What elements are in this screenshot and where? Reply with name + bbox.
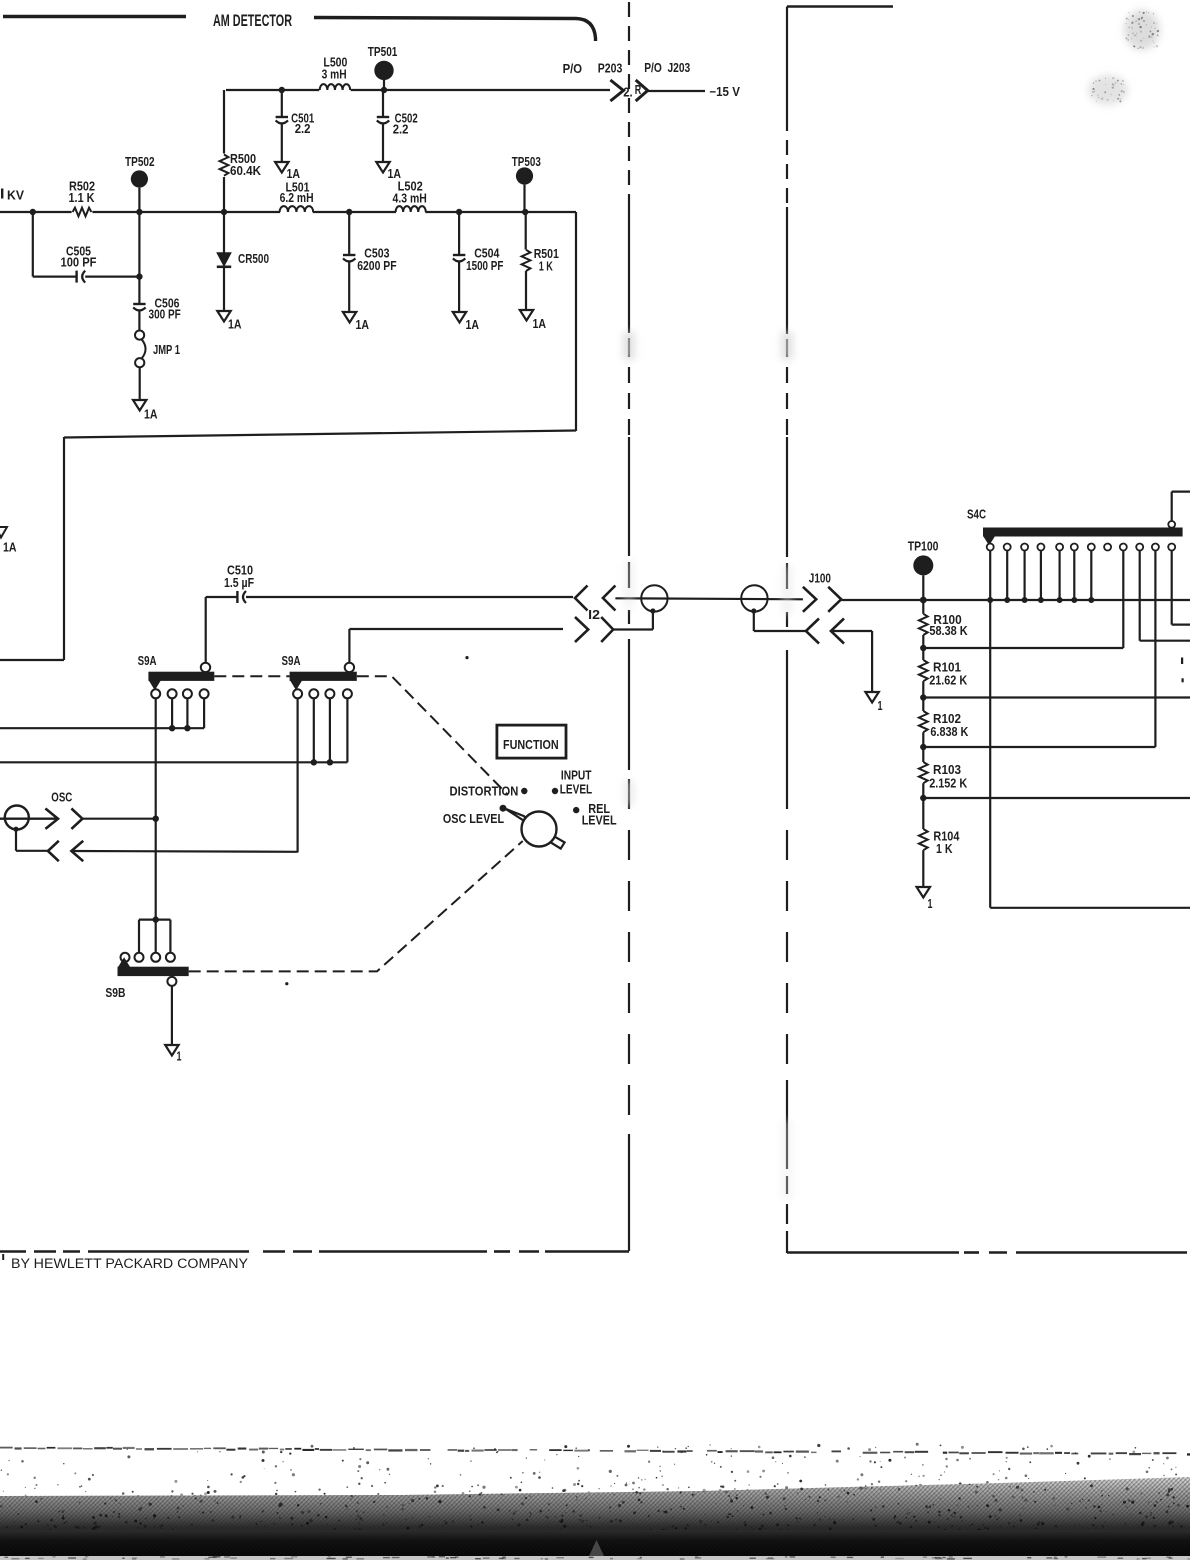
svg-text:P203: P203 (598, 62, 623, 76)
svg-text:AM DETECTOR: AM DETECTOR (213, 12, 292, 30)
svg-text:JMP 1: JMP 1 (153, 343, 180, 357)
svg-text:60.4K: 60.4K (230, 164, 261, 178)
svg-text:I2: I2 (588, 608, 600, 622)
svg-text:1.5 µF: 1.5 µF (224, 576, 254, 590)
svg-text:300 PF: 300 PF (149, 308, 182, 322)
svg-text:6200 PF: 6200 PF (357, 259, 397, 273)
svg-text:4.3 mH: 4.3 mH (393, 192, 427, 206)
svg-text:1: 1 (177, 1050, 182, 1064)
svg-text:S9B: S9B (105, 986, 125, 1000)
svg-text:2.: 2. (623, 86, 633, 100)
svg-text:21.62 K: 21.62 K (929, 674, 967, 688)
svg-text:R101: R101 (933, 661, 961, 675)
svg-text:1A: 1A (3, 541, 17, 555)
svg-text:DISTORTION: DISTORTION (450, 785, 519, 799)
svg-text:1500 PF: 1500 PF (466, 259, 504, 273)
svg-text:R102: R102 (933, 712, 961, 726)
svg-text:R103: R103 (933, 763, 961, 777)
svg-text:P/O J203: P/O J203 (644, 61, 690, 75)
svg-text:P/O: P/O (563, 62, 583, 76)
svg-text:S4C: S4C (967, 508, 986, 522)
svg-text:TP100: TP100 (908, 540, 939, 554)
svg-text:1 K: 1 K (539, 260, 553, 274)
svg-text:1A: 1A (356, 318, 370, 332)
svg-text:TP503: TP503 (512, 155, 541, 169)
svg-text:1A: 1A (287, 167, 301, 181)
svg-text:6.2 mH: 6.2 mH (280, 191, 314, 205)
svg-text:6.838 K: 6.838 K (930, 725, 968, 739)
svg-text:100 PF: 100 PF (61, 256, 97, 270)
svg-text:FUNCTION: FUNCTION (503, 737, 559, 752)
svg-text:INPUT: INPUT (561, 769, 592, 783)
svg-text:BY HEWLETT PACKARD COMPANY: BY HEWLETT PACKARD COMPANY (11, 1256, 248, 1271)
svg-text:1A: 1A (466, 318, 480, 332)
svg-text:OSC LEVEL: OSC LEVEL (443, 812, 505, 826)
svg-text:CR500: CR500 (238, 252, 269, 266)
svg-text:3 mH: 3 mH (322, 68, 347, 82)
svg-text:LEVEL: LEVEL (582, 814, 617, 828)
svg-text:J100: J100 (809, 572, 831, 586)
svg-text:1A: 1A (144, 408, 158, 422)
svg-text:2.2: 2.2 (393, 123, 409, 137)
svg-text:−15 V: −15 V (709, 85, 740, 99)
svg-text:1: 1 (878, 699, 883, 713)
svg-text:1A: 1A (228, 318, 242, 332)
svg-text:1 K: 1 K (936, 842, 953, 856)
svg-text:S9A: S9A (138, 654, 157, 668)
svg-text:58.38 K: 58.38 K (929, 624, 967, 638)
svg-text:S9A: S9A (282, 654, 301, 668)
svg-text:TP501: TP501 (368, 45, 398, 59)
svg-text:2.152 K: 2.152 K (929, 776, 967, 790)
svg-text:TP502: TP502 (125, 155, 155, 169)
svg-text:KV: KV (7, 189, 25, 203)
svg-text:2.2: 2.2 (295, 122, 311, 136)
svg-text:OSC: OSC (51, 791, 72, 805)
svg-text:1A: 1A (533, 317, 547, 331)
svg-text:R: R (635, 83, 642, 97)
svg-text:1: 1 (928, 897, 933, 911)
svg-text:1.1 K: 1.1 K (69, 191, 95, 205)
svg-text:LEVEL: LEVEL (560, 783, 593, 797)
